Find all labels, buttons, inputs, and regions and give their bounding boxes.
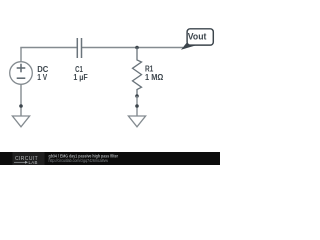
node dot right ground junction xyxy=(135,104,139,108)
wire top horizontal right of capacitor to Vout tail xyxy=(82,47,184,49)
voltage source minus sign xyxy=(17,77,26,79)
wire top horizontal left of capacitor xyxy=(20,47,77,49)
svg-text:Vout: Vout xyxy=(188,31,207,41)
wire resistor to ground xyxy=(136,96,138,116)
node dot left ground junction xyxy=(19,104,23,108)
svg-text:http://circuitlab.com/c/gq74z6: http://circuitlab.com/c/gq74z6mca8vw xyxy=(49,158,109,163)
net flag Vout tail xyxy=(181,41,198,50)
svg-text:LAB: LAB xyxy=(29,160,38,165)
capacitor C1 left plate xyxy=(76,38,78,58)
wire source bottom to ground xyxy=(20,84,22,116)
svg-text:1 V: 1 V xyxy=(37,73,48,82)
svg-text:R1: R1 xyxy=(145,64,154,73)
footer logo badge background xyxy=(13,152,45,165)
svg-text:1 MΩ: 1 MΩ xyxy=(145,73,163,82)
footer logo LAB with wire-arrow xyxy=(14,160,38,165)
wire top-left vertical from source to corner xyxy=(20,48,22,62)
capacitor C1 right plate xyxy=(81,38,83,58)
node dot top junction at resistor xyxy=(135,46,139,50)
svg-text:1 µF: 1 µF xyxy=(73,73,88,82)
node dot resistor bottom pin xyxy=(135,94,139,98)
ground symbol right xyxy=(128,116,145,127)
net flag Vout box xyxy=(187,29,213,45)
ground symbol left xyxy=(12,116,29,127)
resistor R1 zigzag xyxy=(133,48,142,97)
voltage source plus sign xyxy=(17,64,26,73)
voltage source DC 1V circle xyxy=(10,62,33,85)
footer bar xyxy=(0,152,220,165)
